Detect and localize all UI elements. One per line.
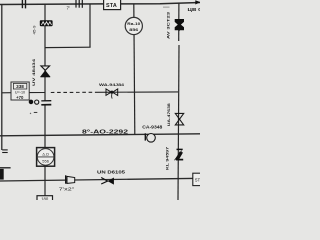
diode AV 3CT23 (filled hourglass) [175,19,184,31]
svg-text:UN D6105: UN D6105 [97,170,126,175]
box bottom (180) [37,196,53,203]
box 338 / U-10 / +70 [11,82,29,100]
wire: net y~92 dashed section [51,91,95,93]
wire: vertical rail x~45 lower [44,105,46,196]
svg-text:7'x2": 7'x2" [59,186,75,191]
inductor (black box with zigzag) L [40,20,53,26]
capacitor (top-left, on top bus) [22,0,25,8]
svg-text:45·9: 45·9 [33,26,37,35]
svg-text:5T: 5T [195,178,200,183]
capacitor (top, value 7) [76,0,82,8]
wire: horizontal link y~47 [45,46,91,48]
wire: right vertical x~178, upper piece [178,3,180,42]
wire: net y~92 box to rail [29,92,46,94]
junction dot [29,100,34,105]
diode UN D6105 [101,178,114,185]
meter (square with circle) [37,148,55,167]
wire: vertical stub x~90 from top [89,4,91,47]
test point (open circle) [35,100,39,104]
diode KL 94597 [175,149,184,160]
svg-text:8°-AO-2292: 8°-AO-2292 [82,130,128,136]
svg-text:ЦВ 0: ЦВ 0 [188,7,201,12]
wire: middle vertical x~134 [134,4,135,135]
svg-text:338: 338 [16,84,24,89]
svg-text:Δ.Ω: Δ.Ω [42,152,49,156]
svg-text:556: 556 [42,158,49,163]
svg-text:UA-47638: UA-47638 [166,102,171,126]
wire: top bus line [0,3,200,5]
box STA [104,0,121,10]
wire: middle bus line y~135 [0,134,200,136]
diode UV-47638 (open hourglass) [175,113,183,125]
wire: left border vertical x~1.8 [1,4,3,150]
svg-text:180: 180 [41,197,49,200]
svg-text:Ra-10: Ra-10 [127,21,141,26]
wire: net y~92 solid to right vertical [95,91,178,93]
circle meter/lamp (Ra-10 856) [125,17,142,34]
svg-text:CA-9348: CA-9348 [142,124,163,129]
wire: vertical rail x~45 upper [44,4,46,101]
background paper [0,0,200,200]
left-edge capacitor plates [2,150,8,153]
svg-text:UV 48434: UV 48434 [31,58,36,86]
svg-text:STA: STA [106,3,117,9]
zener diode UV 48434 [40,66,50,77]
left-edge stub line [0,167,11,169]
scan smudge near top line [163,6,170,8]
wire: net y~92 left stub [2,92,11,94]
capacitor (polarized) on x45 [41,101,51,105]
svg-text:*: * [30,112,32,117]
svg-text:WA-94J84: WA-94J84 [99,82,125,87]
svg-text:KL 94597: KL 94597 [164,146,169,170]
horn/funnel transducer [66,175,75,183]
diode WA-94J84 (bowtie) [106,89,118,99]
svg-text:AV 3CT23: AV 3CT23 [165,11,170,39]
left-edge black bar [0,169,4,180]
svg-text:856: 856 [129,27,139,32]
box bottom-right (clipped) [193,173,203,185]
svg-text:+70: +70 [16,95,24,100]
arrow (top-right line end) [195,0,200,4]
wire: right vertical x~178, lower piece (gap at y41-45) [178,45,179,200]
component CA-9348 (bar + circle) [145,133,155,142]
wire: bottom bus line y~180 [0,178,200,181]
svg-text:7': 7' [67,5,71,10]
